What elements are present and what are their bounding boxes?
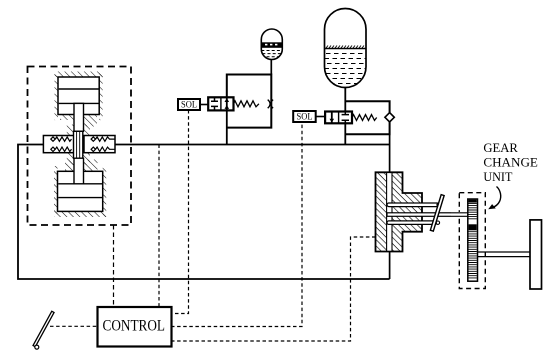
valve V1 spring xyxy=(234,101,259,107)
orifice restrictor on V1 loop xyxy=(268,100,273,109)
spring left-top with poppet diamond xyxy=(51,137,72,141)
valve V2 loop xyxy=(345,101,389,134)
valve V1 loop xyxy=(227,75,271,128)
piston rod lower into cylinder xyxy=(74,158,84,184)
wire V1 stem to pipe xyxy=(226,110,228,144)
wire dashed feedback line spool unit to control xyxy=(113,225,115,306)
gear selector lever stick xyxy=(33,311,54,346)
centering spring box left xyxy=(43,136,75,153)
selector rod 2 and shaft to gear xyxy=(387,213,468,217)
svg-text:CHANGE: CHANGE xyxy=(483,155,538,169)
accumulator A1 stem xyxy=(270,60,272,75)
centering spring box right xyxy=(84,136,115,153)
svg-text:CONTROL: CONTROL xyxy=(103,318,166,335)
wire dashed pilot line control to actuator xyxy=(171,237,376,341)
rod1 ball end xyxy=(437,203,440,206)
solenoid box SOL1 xyxy=(178,99,208,110)
check valve diamond on V2 loop xyxy=(385,113,394,122)
wire riser to actuator top xyxy=(389,134,391,172)
rod3 ball end xyxy=(436,221,439,224)
solenoid box SOL2 xyxy=(293,111,325,122)
label arrow to gear unit xyxy=(492,187,501,208)
lever pivot ball xyxy=(35,345,39,349)
svg-text:SOL: SOL xyxy=(181,100,197,110)
svg-text:GEAR: GEAR xyxy=(483,141,518,155)
piston upper xyxy=(59,89,99,103)
wire dashed sense line from pipe to control xyxy=(158,145,160,307)
spool center land xyxy=(74,131,83,158)
gear change unit dashed box xyxy=(459,193,485,289)
selector rod 1 xyxy=(387,203,439,207)
wire main supply pipe right segment xyxy=(115,144,390,146)
wire dashed line control to SOL2 xyxy=(171,122,302,327)
piston lower xyxy=(58,184,102,198)
supply bore channel xyxy=(387,173,392,250)
valve V2 body xyxy=(325,112,352,124)
node spool unit dashed enclosure xyxy=(28,67,132,226)
valve V2 spring xyxy=(352,115,377,121)
top cylinder hatched walls xyxy=(55,72,103,127)
gear cluster xyxy=(468,199,478,281)
actuator block hatched housing xyxy=(376,172,423,251)
wire riser from actuator bottom xyxy=(389,252,391,280)
bottom cylinder hatched walls xyxy=(54,160,106,218)
wire dashed line SOL1 to control xyxy=(171,110,189,314)
output shaft xyxy=(478,252,531,257)
spring left-bottom with poppet diamond xyxy=(51,147,72,151)
valve V1 body xyxy=(208,97,233,110)
cylinder body upper xyxy=(58,77,99,115)
spool housing hatch patches xyxy=(67,125,90,165)
svg-text:SOL: SOL xyxy=(297,112,313,122)
cylinder body lower xyxy=(58,171,103,211)
spring right-bottom with poppet diamond xyxy=(91,147,115,151)
label GEAR CHANGE UNIT xyxy=(483,141,538,184)
accumulator A1 xyxy=(261,29,282,60)
spring right-top with poppet diamond xyxy=(91,137,115,141)
selector lever xyxy=(430,195,444,231)
control box xyxy=(98,307,172,347)
piston rod upper xyxy=(74,103,84,131)
accumulator A2 xyxy=(325,9,367,88)
wire main supply pipe left segment xyxy=(18,145,390,280)
shaft passing over dashed box edge xyxy=(451,212,468,217)
output wheel xyxy=(530,220,542,289)
selector rod 3 xyxy=(387,221,437,225)
wire V2 stem down to pipe xyxy=(344,123,346,144)
svg-text:UNIT: UNIT xyxy=(483,170,512,184)
wire V2 stem up to accumulator xyxy=(344,88,346,112)
wire dashed line lever to control xyxy=(50,325,98,327)
